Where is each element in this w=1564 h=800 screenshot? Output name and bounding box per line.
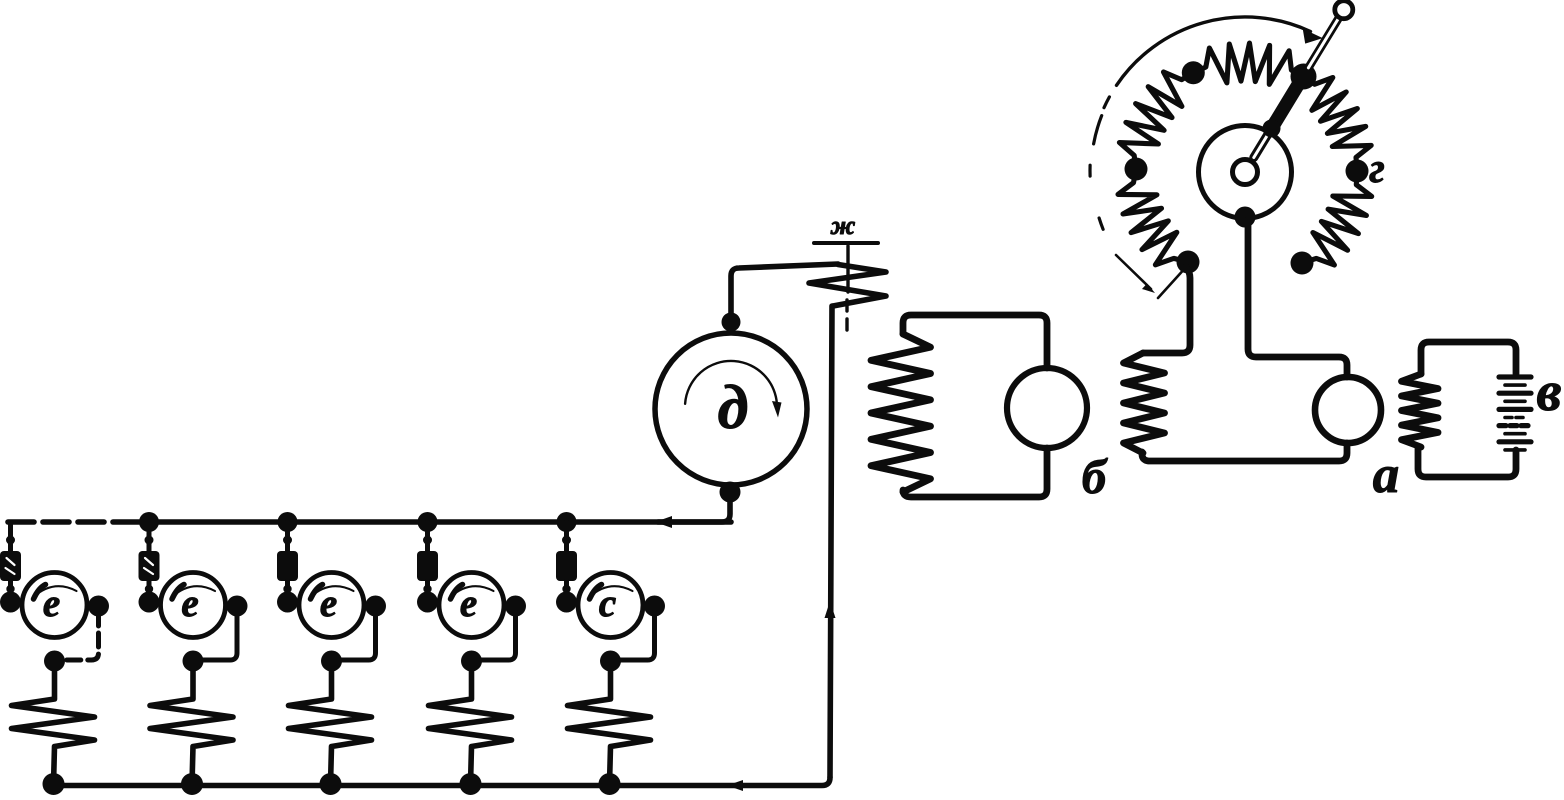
wire meter to resistor unit 5 — [611, 612, 655, 660]
meter arrow tail unit 2 — [172, 585, 184, 600]
meter е unit 1 — [22, 573, 87, 638]
meter arrow arc unit 4 — [451, 586, 494, 597]
lever knob — [1335, 1, 1353, 19]
svg-text:е: е — [320, 582, 337, 625]
node below fuse unit 3 — [283, 585, 291, 593]
node bus junction unit 2 — [139, 512, 159, 532]
wire resistor а bottom — [1142, 443, 1347, 461]
indicator arrowhead to tap F — [1142, 284, 1155, 294]
wire bus drop unit 3 — [285, 522, 290, 552]
node left terminal unit 2 — [139, 592, 160, 613]
node small unit 5 — [562, 536, 571, 545]
fuse F1 speckle — [6, 558, 15, 574]
wire meter to resistor unit 3 — [332, 612, 376, 660]
node rheostat tap E — [1125, 158, 1148, 181]
rheostat hub outer — [1199, 126, 1292, 219]
wire meter to resistor unit 1 — [55, 612, 99, 660]
battery в — [1499, 374, 1531, 379]
wire bus drop unit 2 — [147, 522, 152, 552]
wire top bus (solid section) — [147, 519, 731, 525]
node small unit 1 — [6, 536, 15, 545]
fuse F5 — [556, 551, 577, 581]
rheostat resistor segment 1 — [1119, 72, 1193, 169]
svg-text:е: е — [43, 582, 60, 625]
meter arrow tail unit 3 — [311, 585, 323, 600]
node bus junction unit 3 — [278, 512, 298, 532]
indicator line to tap F — [1116, 255, 1151, 289]
node motor top terminal — [722, 313, 741, 332]
current arrow on bottom bus — [727, 780, 743, 791]
svg-text:е: е — [181, 582, 198, 625]
resistor unit 4 — [429, 662, 512, 784]
wire hub to lamp а — [1248, 220, 1347, 377]
resistor R-б — [871, 334, 931, 492]
svg-text:г: г — [1369, 146, 1385, 192]
rheostat resistor segment 4 — [1302, 171, 1372, 265]
resistor R-в — [1402, 374, 1439, 447]
wire motor bottom lead — [658, 492, 730, 522]
tap lead ж — [846, 246, 849, 292]
machine д body — [655, 333, 807, 485]
lever shaft lower — [1254, 124, 1274, 157]
node resistor top unit 1 — [44, 651, 65, 672]
svg-text:е: е — [460, 582, 477, 625]
machine д rotation arc — [685, 361, 777, 410]
resistor ж — [809, 265, 886, 307]
resistor R-а — [1124, 353, 1165, 453]
node lever at hub rim — [1263, 119, 1281, 137]
meter arrow tail unit 5 — [590, 585, 602, 600]
node resistor top unit 4 — [461, 651, 482, 672]
wire б loop top — [903, 315, 1047, 368]
lever grip — [1271, 73, 1305, 129]
node right terminal unit 2 — [227, 596, 248, 617]
node bottom bus unit 3 — [320, 773, 342, 795]
node rheostat tap C — [1346, 160, 1369, 183]
fuse F2 — [139, 551, 160, 581]
wire long vertical return — [830, 306, 832, 777]
current arrow on return wire — [825, 601, 836, 618]
wire bus drop unit 1 — [8, 522, 13, 552]
meter arrow arc unit 5 — [590, 586, 633, 597]
indicator tail to tap F — [1158, 266, 1187, 298]
node rheostat tap A — [1182, 61, 1205, 84]
current arrow on top bus — [655, 516, 672, 528]
node resistor top unit 2 — [183, 651, 204, 672]
wire bus drop unit 4 — [425, 522, 430, 552]
node hub bottom terminal — [1235, 207, 1256, 228]
meter е unit 2 — [161, 573, 226, 638]
node rheostat tap F — [1177, 251, 1200, 274]
wire bus drop unit 5 — [564, 522, 569, 552]
lever shaft upper white core — [1308, 17, 1339, 67]
lamp а — [1315, 377, 1381, 443]
wire meter to resistor unit 4 — [472, 612, 516, 660]
rheostat hub inner — [1233, 160, 1258, 185]
node right terminal unit 4 — [505, 596, 526, 617]
node right terminal unit 5 — [644, 596, 665, 617]
node small unit 2 — [145, 536, 154, 545]
wire в loop — [1418, 342, 1516, 477]
node lever contact — [1291, 64, 1317, 90]
resistor unit 5 — [568, 662, 651, 784]
node bottom bus unit 2 — [181, 773, 203, 795]
node resistor top unit 3 — [321, 651, 342, 672]
wire fuse to terminal unit 3 — [285, 581, 290, 600]
node bottom bus unit 5 — [599, 773, 621, 795]
resistor unit 3 — [289, 662, 372, 784]
meter arrow arc unit 1 — [34, 586, 77, 597]
fuse F2 speckle — [144, 558, 153, 574]
node left terminal unit 4 — [417, 592, 438, 613]
meter е unit 3 — [299, 573, 364, 638]
resistor unit 1 — [12, 662, 95, 784]
rotation arc dash 1 — [1104, 97, 1109, 108]
wire fuse to terminal unit 5 — [564, 581, 569, 600]
node below fuse unit 1 — [6, 585, 14, 593]
wire top bus (dashed section) — [8, 519, 147, 525]
rotation arc dash 2 — [1094, 116, 1102, 144]
rheostat resistor segment 2 — [1193, 43, 1303, 84]
terminal bar ж — [814, 241, 878, 245]
meter arrow tail unit 4 — [451, 585, 463, 600]
wire meter to resistor unit 2 — [193, 612, 237, 660]
node bus junction unit 5 — [557, 512, 577, 532]
node below fuse unit 5 — [562, 585, 570, 593]
node below fuse unit 2 — [145, 585, 153, 593]
meter е unit 4 — [439, 573, 504, 638]
svg-text:а: а — [1373, 446, 1400, 504]
lever shaft lower white core — [1254, 124, 1274, 157]
meter arrow arc unit 3 — [311, 586, 354, 597]
lever shaft upper — [1308, 17, 1339, 67]
node right terminal unit 3 — [365, 596, 386, 617]
wire motor top lead — [731, 264, 838, 320]
node below fuse unit 4 — [423, 585, 431, 593]
rotation arc dash 3 — [1088, 165, 1091, 176]
wire tap F to resistor а — [1143, 267, 1190, 353]
rotation arc arrowhead — [1303, 29, 1323, 44]
node resistor top unit 5 — [600, 651, 621, 672]
rheostat resistor segment 3 — [1304, 77, 1372, 172]
fuse F4 — [417, 551, 438, 581]
node left terminal unit 1 — [0, 592, 21, 613]
node small unit 3 — [283, 536, 292, 545]
lamp б — [1007, 368, 1087, 448]
node left terminal unit 3 — [277, 592, 298, 613]
node bottom bus unit 4 — [460, 773, 482, 795]
meter arrow tail unit 1 — [34, 585, 46, 600]
wire fuse to terminal unit 2 — [147, 581, 152, 600]
wire fuse to terminal unit 1 — [8, 581, 13, 600]
svg-text:б: б — [1082, 449, 1109, 504]
resistor unit 2 — [150, 662, 233, 784]
node bus junction unit 4 — [418, 512, 438, 532]
rotation arc dash 4 — [1099, 218, 1103, 229]
node left terminal unit 5 — [556, 592, 577, 613]
node rheostat tap D — [1291, 252, 1314, 275]
svg-text:в: в — [1536, 361, 1561, 423]
rheostat resistor segment 5 — [1118, 169, 1188, 265]
wire б loop bottom — [903, 448, 1047, 497]
node small unit 4 — [423, 536, 432, 545]
tap lead ж dashed — [845, 300, 848, 334]
node motor bottom terminal — [720, 482, 741, 503]
svg-text:ж: ж — [830, 211, 856, 240]
svg-text:с: с — [599, 582, 616, 625]
meter с unit 5 — [578, 573, 643, 638]
node bottom bus unit 1 — [43, 773, 65, 795]
rotation arc — [1117, 17, 1311, 85]
fuse F1 — [0, 551, 21, 581]
machine д rotation arrowhead — [772, 401, 782, 418]
meter arrow arc unit 2 — [172, 586, 215, 597]
node right terminal unit 1 — [88, 596, 109, 617]
svg-text:д: д — [718, 374, 749, 442]
fuse F3 — [277, 551, 298, 581]
node rheostat tap B — [1292, 65, 1315, 88]
wire fuse to terminal unit 4 — [425, 581, 430, 600]
wire bottom bus — [51, 778, 830, 786]
